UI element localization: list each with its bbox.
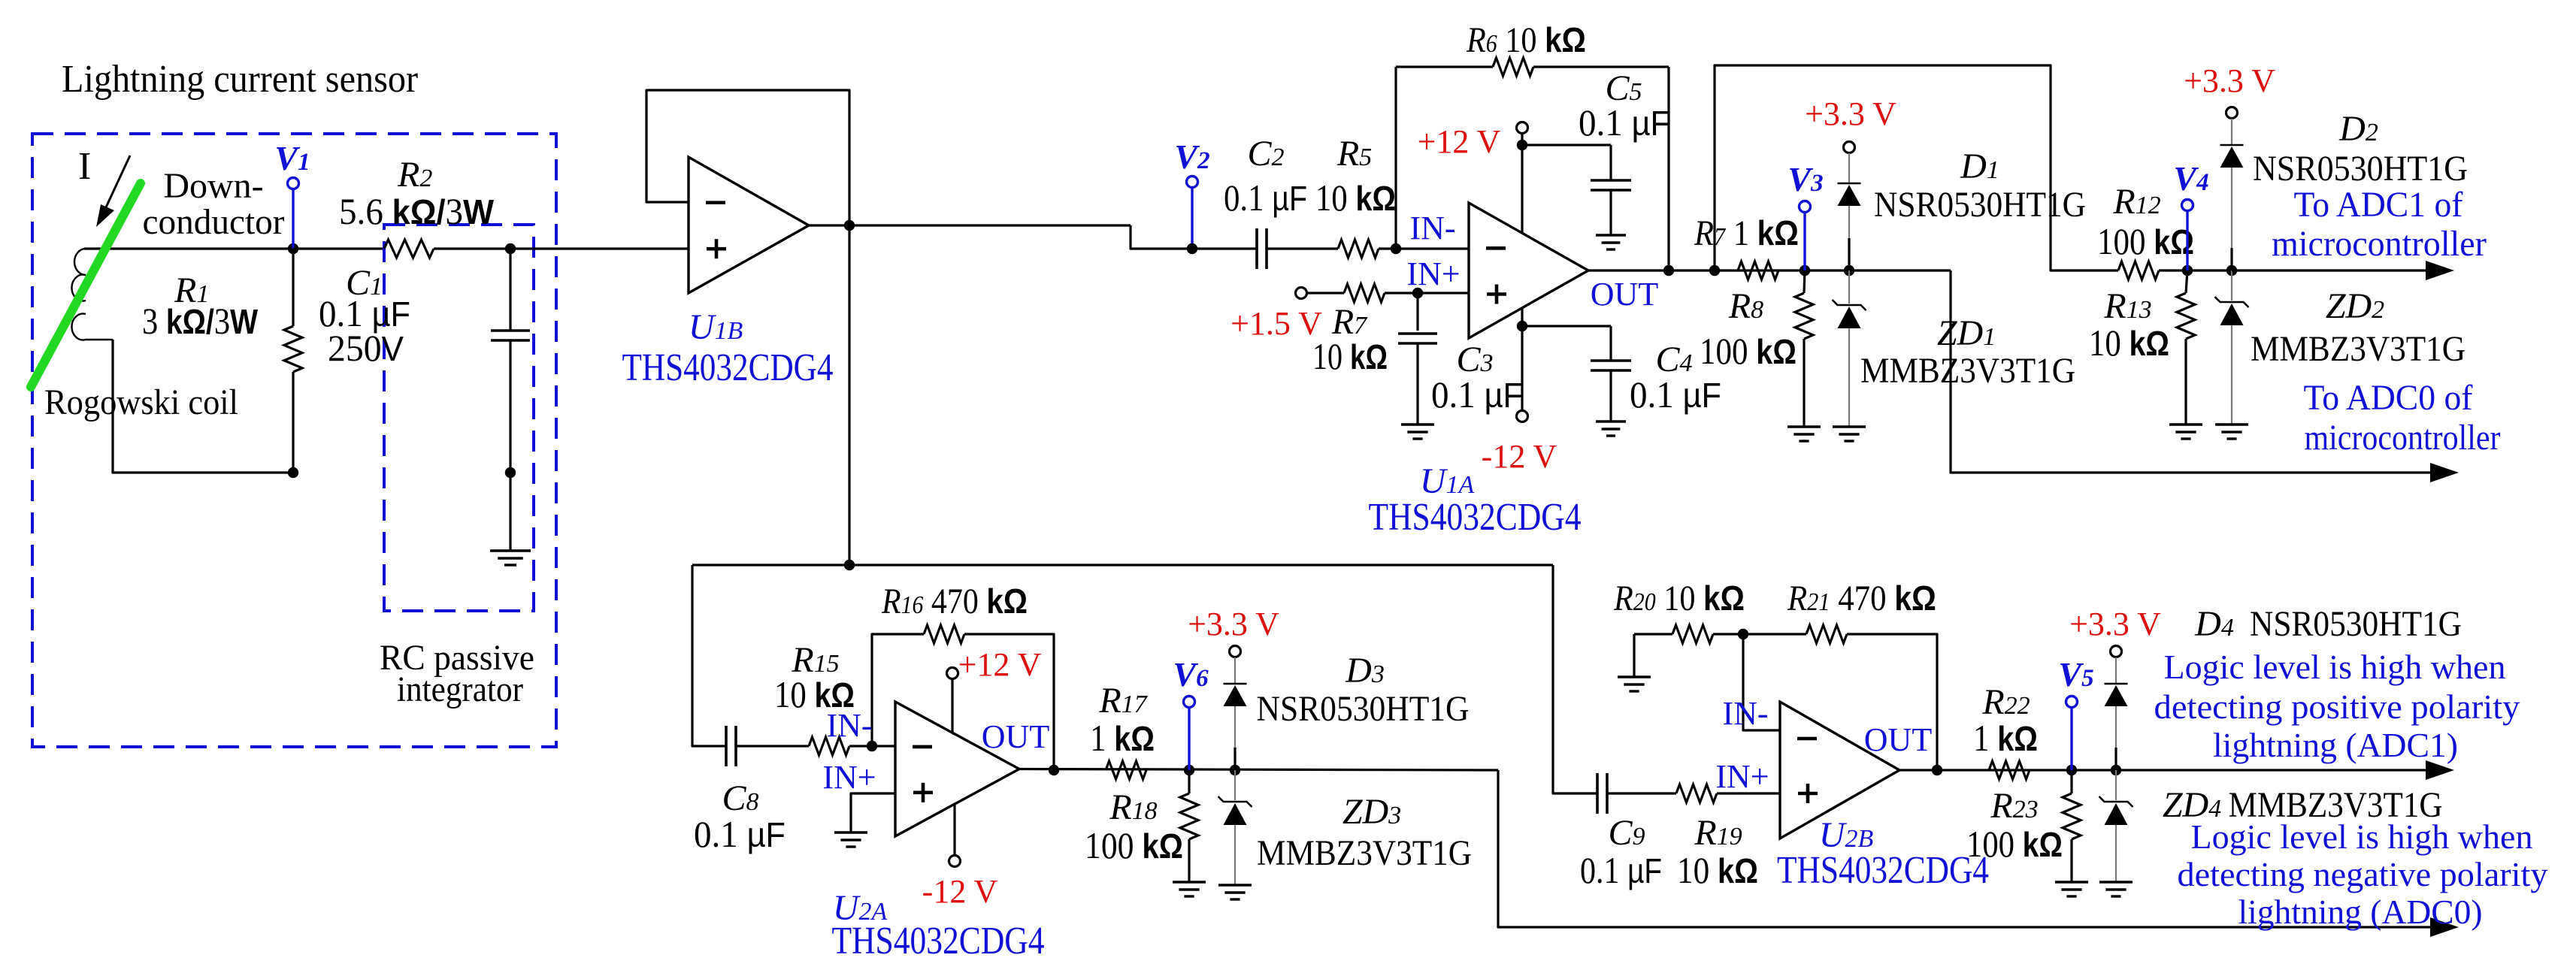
ground (R18) — [1173, 881, 1206, 883]
capacitor C5 — [1591, 179, 1631, 182]
wire U1B feedback (out to -in) — [646, 90, 849, 225]
node V2 terminal — [1191, 188, 1193, 249]
terminal +12V (U1A) — [1517, 122, 1528, 134]
resistor R20 — [1672, 625, 1713, 643]
svg-text:R19: R19 — [1694, 813, 1742, 853]
wire V1 node to R2 — [293, 247, 383, 249]
wire R12 to D2 — [2159, 269, 2232, 271]
wire -12V up to op-amp — [1521, 308, 1523, 410]
wire U1B out jog down — [1131, 225, 1192, 249]
svg-text:100 kΩ: 100 kΩ — [2097, 220, 2194, 262]
wire C8 left leg — [692, 565, 726, 746]
wire: coil bottom leg — [113, 340, 293, 473]
svg-text:Logic level is high when: Logic level is high when — [2164, 648, 2506, 686]
wire top to R6 — [1396, 65, 1493, 68]
terminal +1.5V — [1296, 288, 1307, 299]
node dot top V1 — [288, 243, 298, 254]
node dot U2B out — [1932, 765, 1942, 775]
zener ZD1 — [1848, 270, 1850, 304]
svg-text:microcontroller: microcontroller — [2305, 418, 2501, 458]
ground (ZD4) — [2099, 881, 2133, 883]
node dot loop join — [1709, 265, 1720, 276]
svg-text:R21 470 kΩ: R21 470 kΩ — [1787, 579, 1936, 618]
wire C1 to ground — [509, 473, 511, 551]
svg-text:THS4032CDG4: THS4032CDG4 — [622, 346, 834, 389]
arrow bottom (ADC0 polarity) — [2430, 917, 2459, 937]
op-amp U1A — [1469, 203, 1588, 338]
capacitor C2 — [1255, 228, 1258, 269]
resistor R12 — [2118, 261, 2159, 279]
resistor R2 — [384, 240, 434, 258]
svg-text:THS4032CDG4: THS4032CDG4 — [832, 920, 1045, 962]
wire R15 to -in — [849, 745, 895, 747]
terminal +12V (U2A) — [947, 668, 958, 679]
node dot V5 — [2066, 765, 2077, 775]
wire +1.5V to R7 — [1306, 292, 1344, 294]
current arrow — [105, 156, 130, 209]
svg-text:V3: V3 — [1787, 160, 1823, 198]
svg-text:C9: C9 — [1608, 813, 1645, 853]
svg-text:V1: V1 — [274, 139, 310, 177]
capacitor C1 (vertical) — [509, 249, 511, 331]
svg-text:0.1 µF: 0.1 µF — [694, 813, 786, 855]
svg-text:-12 V: -12 V — [1482, 438, 1557, 475]
svg-text:Lightning current sensor: Lightning current sensor — [62, 58, 418, 101]
wire IN- node up — [1394, 67, 1397, 249]
node dot bottom left — [288, 467, 298, 478]
terminal -12V (U2A) — [949, 856, 961, 867]
svg-text:IN+: IN+ — [1406, 255, 1460, 292]
svg-text:10 kΩ: 10 kΩ — [1312, 335, 1388, 377]
wire U1B output — [809, 224, 1131, 226]
svg-text:R6 10 kΩ: R6 10 kΩ — [1466, 20, 1586, 60]
svg-text:R5: R5 — [1336, 134, 1372, 174]
svg-text:0.1 µF: 0.1 µF — [1579, 101, 1670, 144]
resistor R6 — [1493, 58, 1533, 76]
wire R20 to ground leg — [1634, 633, 1672, 635]
ground (R23) — [2055, 881, 2088, 883]
ground (ZD3) — [1218, 884, 1252, 886]
wire to ADC0 down — [1951, 270, 2431, 473]
wire: coil top to node V1 — [84, 247, 293, 249]
svg-text:+12 V: +12 V — [958, 646, 1042, 683]
wire C8 to R15 — [736, 745, 809, 747]
ground (ZD2) — [2215, 423, 2248, 425]
node dot V4 — [2182, 265, 2193, 276]
svg-text:0.1 µF 10 kΩ: 0.1 µF 10 kΩ — [1224, 177, 1396, 219]
resistor R22 — [1989, 761, 2030, 779]
wire R19 to +in — [1717, 792, 1780, 794]
svg-text:V6: V6 — [1173, 655, 1209, 693]
svg-text:100 kΩ: 100 kΩ — [1966, 823, 2063, 865]
svg-text:conductor: conductor — [143, 202, 285, 242]
svg-text:0.1 µF: 0.1 µF — [1630, 373, 1721, 415]
svg-text:D1: D1 — [1960, 147, 1999, 186]
dashed box: lightning current sensor — [32, 134, 556, 747]
svg-text:R7 1 kΩ: R7 1 kΩ — [1694, 213, 1799, 253]
svg-text:1 kΩ: 1 kΩ — [1973, 717, 2038, 759]
zener ZD3 — [1234, 770, 1236, 800]
svg-text:V4: V4 — [2173, 159, 2208, 198]
svg-text:0.1 µF: 0.1 µF — [1431, 373, 1523, 415]
svg-text:100 kΩ: 100 kΩ — [1085, 824, 1183, 866]
svg-text:Down-: Down- — [163, 166, 263, 206]
diode D2 — [2231, 119, 2232, 145]
diode D4 — [2115, 657, 2117, 684]
node V6 terminal — [1188, 708, 1190, 770]
ground (R8) — [1787, 425, 1821, 428]
svg-text:+3.3 V: +3.3 V — [1188, 606, 1279, 642]
wire U2A feedback — [872, 634, 924, 746]
wire U2B output — [1899, 769, 2426, 771]
svg-text:detecting negative polarity: detecting negative polarity — [2178, 855, 2548, 893]
terminal +3.3V (D2) — [2226, 107, 2238, 119]
svg-text:lightning (ADC0): lightning (ADC0) — [2238, 893, 2483, 931]
svg-text:THS4032CDG4: THS4032CDG4 — [1369, 496, 1582, 539]
wire R7 to +in — [1385, 292, 1469, 294]
node V1 terminal — [292, 189, 294, 249]
zener ZD4 — [2115, 770, 2117, 800]
svg-text:NSR0530HT1G: NSR0530HT1G — [2250, 604, 2462, 644]
node dot R6 join — [1663, 265, 1674, 276]
wire down to output — [1667, 67, 1669, 270]
svg-text:+1.5 V: +1.5 V — [1230, 305, 1322, 342]
node dot U1B out — [844, 220, 855, 231]
svg-text:U1B: U1B — [689, 307, 743, 347]
svg-text:ZD3: ZD3 — [1342, 792, 1401, 832]
resistor R8 (vertical) — [1804, 270, 1805, 293]
svg-text:V5: V5 — [2058, 655, 2093, 693]
wire R16 to out — [964, 634, 1054, 770]
wire R6 to right vert — [1533, 65, 1669, 68]
diode D3 — [1234, 657, 1236, 684]
Rogowski coil winding — [71, 249, 113, 340]
svg-text:R16 470 kΩ: R16 470 kΩ — [881, 582, 1028, 621]
node dot U2A out — [1049, 765, 1059, 775]
wire C2 to R5 — [1267, 247, 1338, 249]
wire branch to C9 — [1553, 565, 1597, 793]
svg-text:IN+: IN+ — [822, 759, 876, 796]
arrow U2B out (ADC1 polarity) — [2426, 760, 2454, 780]
capacitor C4 — [1591, 359, 1631, 362]
svg-text:lightning (ADC1): lightning (ADC1) — [2213, 726, 2458, 764]
op-amp U1B — [689, 157, 809, 293]
op-amp U2B — [1780, 702, 1899, 838]
node dot R20/R21 — [1738, 629, 1748, 639]
zener ZD2 — [2231, 270, 2232, 301]
svg-text:IN+: IN+ — [1715, 758, 1769, 795]
svg-text:MMBZ3V3T1G: MMBZ3V3T1G — [2251, 329, 2466, 369]
svg-text:+3.3 V: +3.3 V — [1805, 95, 1896, 132]
svg-text:10 kΩ: 10 kΩ — [1677, 849, 1758, 891]
svg-text:R23: R23 — [1990, 786, 2038, 826]
node dot C1 top — [505, 243, 516, 254]
node dot D3 — [1230, 765, 1240, 775]
arrow ADC0 — [2430, 463, 2459, 482]
diode D1 — [1848, 153, 1850, 183]
capacitor C3 — [1416, 293, 1418, 331]
svg-text:IN-: IN- — [1409, 210, 1455, 246]
svg-text:OUT: OUT — [1591, 276, 1659, 313]
resistor R17 — [1106, 761, 1146, 779]
svg-text:R17: R17 — [1098, 681, 1148, 721]
resistor R18 (vertical) — [1188, 770, 1190, 793]
wire U2A out to bottom rail — [1498, 770, 2431, 927]
resistor R23 (vertical) — [2070, 770, 2072, 793]
svg-text:D4: D4 — [2194, 604, 2234, 644]
down-conductor (green) — [31, 183, 141, 387]
ground (U2A +in) — [834, 831, 867, 833]
svg-text:250V: 250V — [328, 327, 404, 369]
wire R21 to out — [1847, 634, 1937, 770]
ground (R20) — [1618, 675, 1651, 678]
wire C1 node to U1B +in — [510, 247, 689, 249]
svg-text:I: I — [78, 145, 91, 188]
ground (C5) — [1596, 234, 1626, 236]
svg-text:3 kΩ/3W: 3 kΩ/3W — [142, 300, 258, 342]
resistor R19 — [1676, 784, 1717, 802]
svg-text:NSR0530HT1G: NSR0530HT1G — [2253, 149, 2468, 189]
node V4 terminal — [2186, 211, 2188, 270]
node dot C3 top — [1412, 288, 1423, 298]
svg-text:D2: D2 — [2338, 109, 2378, 149]
resistor R13 (vertical) — [2186, 270, 2187, 293]
node dot D2 — [2226, 265, 2237, 276]
capacitor C9 — [1596, 773, 1599, 814]
svg-text:ZD1: ZD1 — [1937, 313, 1996, 353]
arrow ADC1 — [2426, 261, 2454, 280]
svg-text:R2: R2 — [397, 155, 432, 195]
ground (ZD1) — [1833, 425, 1866, 428]
svg-text:IN-: IN- — [1722, 695, 1768, 732]
node V5 terminal — [2070, 709, 2072, 770]
svg-text:To ADC0 of: To ADC0 of — [2304, 378, 2473, 418]
svg-text:NSR0530HT1G: NSR0530HT1G — [1874, 185, 2086, 225]
wire U2B -in — [1743, 634, 1780, 730]
svg-text:V2: V2 — [1174, 137, 1209, 176]
svg-text:detecting positive polarity: detecting positive polarity — [2154, 687, 2520, 726]
svg-text:+12 V: +12 V — [1418, 123, 1501, 160]
svg-text:NSR0530HT1G: NSR0530HT1G — [1257, 689, 1470, 729]
svg-text:-12 V: -12 V — [922, 873, 998, 910]
capacitor C8 — [725, 726, 728, 766]
svg-text:ZD2: ZD2 — [2326, 286, 2384, 326]
resistor R15 — [809, 737, 849, 755]
svg-text:5.6 kΩ/3W: 5.6 kΩ/3W — [339, 190, 495, 232]
svg-text:R20 10 kΩ: R20 10 kΩ — [1613, 579, 1745, 618]
svg-text:OUT: OUT — [982, 718, 1050, 755]
wire U2A output — [1019, 769, 1498, 771]
terminal +3.3V (D4) — [2111, 646, 2122, 657]
svg-text:OUT: OUT — [1864, 721, 1933, 758]
svg-text:0.1 µF: 0.1 µF — [1580, 849, 1662, 891]
svg-text:To ADC1 of: To ADC1 of — [2294, 185, 2463, 225]
node dot V3 — [1800, 265, 1810, 276]
svg-text:Rogowski coil: Rogowski coil — [44, 382, 238, 422]
node dot V6 — [1184, 765, 1194, 775]
terminal +3.3V (D1) — [1844, 142, 1855, 153]
resistor R7 (output) — [1738, 261, 1778, 279]
wire U1A output — [1588, 269, 1951, 271]
node dot -12V branch — [1517, 321, 1527, 331]
svg-text:+3.3 V: +3.3 V — [2184, 62, 2275, 99]
wire +12V pin (U2A) — [951, 679, 953, 733]
wire -12V pin (U2A) — [953, 805, 955, 855]
svg-text:THS4032CDG4: THS4032CDG4 — [1777, 849, 1989, 892]
node V3 terminal — [1803, 213, 1806, 270]
wire -12V to C4 — [1522, 325, 1611, 327]
node dot lower branch — [844, 560, 855, 570]
svg-text:+3.3 V: +3.3 V — [2069, 606, 2161, 642]
svg-text:100 kΩ: 100 kΩ — [1700, 330, 1797, 372]
node dot +12V branch — [1517, 140, 1527, 150]
resistor R7 (input) — [1344, 284, 1385, 302]
dashed box: RC passive integrator — [384, 225, 534, 611]
wire V2 to C2 — [1192, 247, 1257, 249]
terminal -12V (U1A) — [1517, 411, 1528, 422]
svg-text:R8: R8 — [1728, 286, 1763, 326]
wire U1B out down to lower branch — [848, 225, 850, 565]
svg-text:R18: R18 — [1109, 787, 1157, 827]
svg-text:MMBZ3V3T1G: MMBZ3V3T1G — [1257, 833, 1472, 873]
wire +12V down to op-amp — [1521, 134, 1523, 233]
node dot V2 — [1187, 243, 1197, 254]
op-amp U2A — [895, 702, 1019, 836]
wire up-and-over to R12 — [1715, 65, 2118, 270]
wire to ADC1 arrow — [2232, 269, 2426, 271]
svg-text:R12: R12 — [2112, 182, 2160, 222]
svg-text:integrator: integrator — [397, 669, 523, 709]
svg-text:microcontroller: microcontroller — [2272, 224, 2487, 264]
svg-text:Logic level is high when: Logic level is high when — [2191, 817, 2533, 856]
node dot U1A -in — [1391, 243, 1401, 254]
svg-text:R13: R13 — [2103, 286, 2151, 326]
node dot D1 — [1844, 265, 1854, 276]
svg-text:IN-: IN- — [826, 707, 872, 744]
resistor R1 (vertical) — [292, 249, 294, 326]
wire U2A +in to ground — [851, 793, 895, 832]
svg-text:MMBZ3V3T1G: MMBZ3V3T1G — [1860, 351, 2075, 391]
resistor R5 — [1338, 240, 1379, 258]
svg-text:D3: D3 — [1345, 651, 1385, 690]
wire R20-R21 node — [1713, 633, 1806, 635]
ground (C4) — [1596, 420, 1626, 422]
wire C9 to R19 — [1607, 792, 1676, 794]
svg-text:1 kΩ: 1 kΩ — [1090, 717, 1155, 759]
ground (C3) — [1401, 423, 1434, 425]
svg-text:10 kΩ: 10 kΩ — [2089, 322, 2169, 364]
resistor R16 — [924, 625, 964, 643]
node dot U2A -in — [867, 741, 877, 751]
wire lower branch horizontal — [692, 564, 1553, 566]
ground (R13) — [2169, 423, 2202, 425]
node dot D4 — [2111, 765, 2121, 775]
node dot C1 bottom — [505, 467, 516, 478]
ground (C1) — [490, 549, 531, 551]
wire +12V to C5 — [1522, 144, 1611, 146]
wire R5 to IN- node — [1379, 247, 1469, 249]
svg-text:C2: C2 — [1247, 134, 1284, 174]
resistor R21 — [1806, 625, 1847, 643]
terminal +3.3V (D3) — [1230, 646, 1241, 657]
